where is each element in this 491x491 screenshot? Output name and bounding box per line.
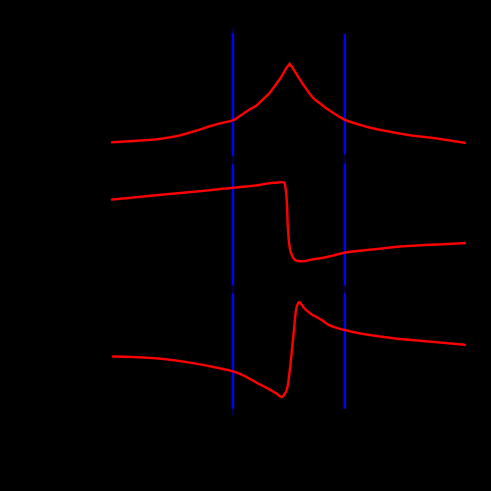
middle red dispersion step curve (112, 182, 465, 261)
faint under-line of right dashed marker (344, 34, 346, 409)
bottom red dispersion curve (113, 302, 465, 397)
right blue dashed vertical line (344, 34, 346, 409)
top red resonance curve (112, 64, 465, 143)
left blue dashed vertical line (232, 34, 234, 409)
faint under-line of left dashed marker (232, 29, 234, 416)
